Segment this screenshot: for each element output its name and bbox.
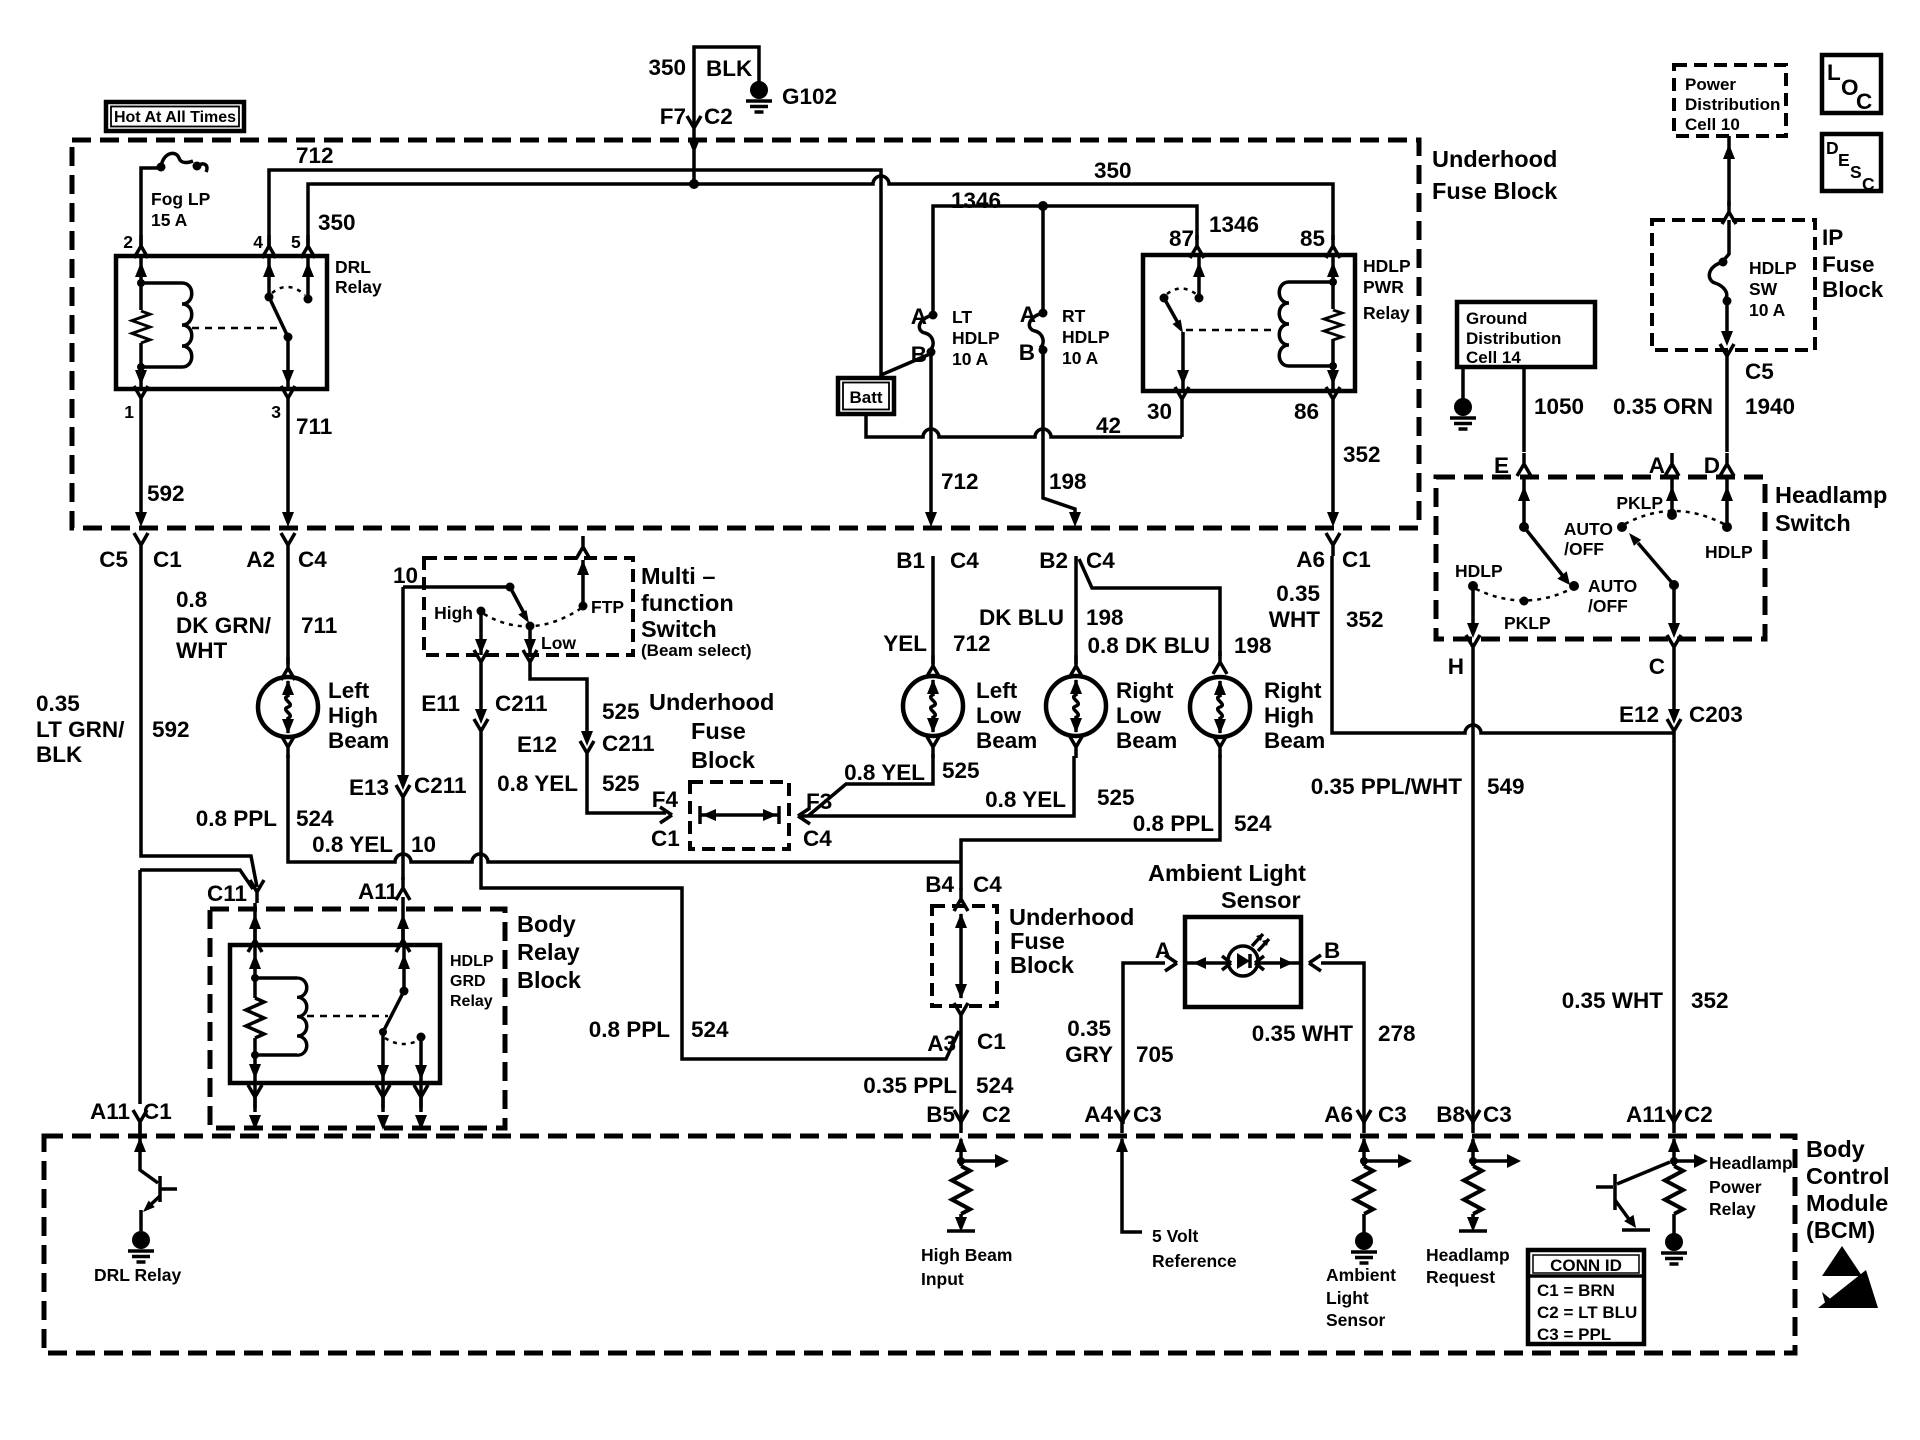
svg-text:Left: Left — [976, 678, 1018, 703]
svg-text:Fuse: Fuse — [691, 718, 746, 744]
svg-text:10: 10 — [411, 832, 436, 857]
svg-text:C1: C1 — [977, 1029, 1006, 1054]
svg-text:Cell 14: Cell 14 — [1466, 348, 1521, 367]
svg-text:D: D — [1826, 138, 1839, 158]
svg-text:HDLP: HDLP — [1062, 327, 1110, 347]
svg-text:Control: Control — [1806, 1163, 1890, 1189]
svg-text:E13: E13 — [349, 775, 389, 800]
svg-text:E11: E11 — [421, 691, 460, 716]
svg-text:Right: Right — [1116, 678, 1174, 703]
svg-text:Block: Block — [517, 967, 582, 993]
svg-text:C3: C3 — [1378, 1102, 1407, 1127]
svg-text:0.35 WHT: 0.35 WHT — [1252, 1021, 1354, 1046]
svg-text:A11: A11 — [358, 879, 398, 904]
svg-text:0.35: 0.35 — [36, 691, 80, 716]
svg-text:Power: Power — [1685, 75, 1736, 94]
svg-text:B1: B1 — [896, 548, 925, 573]
svg-text:WHT: WHT — [1269, 607, 1320, 632]
svg-text:30: 30 — [1147, 399, 1172, 424]
svg-text:Reference: Reference — [1152, 1251, 1237, 1271]
svg-text:DK BLU: DK BLU — [979, 605, 1064, 630]
svg-text:592: 592 — [147, 481, 185, 506]
svg-text:BLK: BLK — [706, 56, 753, 81]
svg-text:C5: C5 — [99, 547, 128, 572]
svg-text:Ground: Ground — [1466, 309, 1527, 328]
svg-text:350: 350 — [648, 55, 686, 80]
svg-text:Headlamp: Headlamp — [1426, 1245, 1510, 1265]
svg-text:Ambient Light: Ambient Light — [1148, 860, 1306, 886]
svg-text:705: 705 — [1136, 1042, 1174, 1067]
svg-text:Relay: Relay — [335, 277, 382, 297]
svg-text:C211: C211 — [495, 691, 548, 716]
svg-text:Headlamp: Headlamp — [1775, 482, 1887, 508]
svg-text:Switch: Switch — [1775, 510, 1851, 536]
svg-text:F4: F4 — [652, 787, 679, 812]
svg-text:C4: C4 — [1086, 548, 1115, 573]
svg-text:D: D — [1704, 453, 1720, 478]
svg-text:C3: C3 — [1133, 1102, 1162, 1127]
svg-text:Sensor: Sensor — [1326, 1310, 1386, 1330]
svg-text:352: 352 — [1343, 442, 1381, 467]
svg-text:HDLP: HDLP — [1749, 258, 1797, 278]
svg-text:0.35 WHT: 0.35 WHT — [1562, 988, 1664, 1013]
svg-text:0.8 PPL: 0.8 PPL — [589, 1017, 671, 1042]
svg-text:C2: C2 — [704, 104, 733, 129]
svg-text:B4: B4 — [925, 872, 954, 897]
svg-text:1: 1 — [124, 402, 134, 422]
svg-text:15 A: 15 A — [151, 210, 188, 230]
svg-text:Underhood: Underhood — [1009, 904, 1134, 930]
svg-text:A6: A6 — [1296, 547, 1325, 572]
svg-text:PWR: PWR — [1363, 277, 1404, 297]
svg-text:Relay: Relay — [1709, 1199, 1756, 1219]
svg-text:352: 352 — [1691, 988, 1729, 1013]
svg-text:C1: C1 — [153, 547, 182, 572]
svg-text:HDLP: HDLP — [1363, 256, 1411, 276]
svg-text:Body: Body — [1806, 1136, 1865, 1162]
svg-text:High: High — [328, 703, 378, 728]
svg-text:A11: A11 — [90, 1099, 130, 1124]
svg-text:0.35 ORN: 0.35 ORN — [1613, 394, 1713, 419]
svg-text:3: 3 — [271, 402, 281, 422]
svg-text:0.35 PPL: 0.35 PPL — [863, 1073, 957, 1098]
svg-text:Relay: Relay — [450, 993, 493, 1010]
svg-text:198: 198 — [1234, 633, 1272, 658]
svg-text:524: 524 — [691, 1017, 729, 1042]
svg-text:Sensor: Sensor — [1221, 887, 1301, 913]
svg-text:Fog LP: Fog LP — [151, 189, 211, 209]
svg-text:A: A — [1649, 453, 1665, 478]
svg-text:712: 712 — [941, 469, 979, 494]
svg-text:0.35 PPL/WHT: 0.35 PPL/WHT — [1311, 774, 1463, 799]
svg-text:Ambient: Ambient — [1326, 1265, 1396, 1285]
svg-text:525: 525 — [602, 699, 640, 724]
svg-text:10 A: 10 A — [1062, 348, 1099, 368]
svg-text:A: A — [911, 304, 927, 329]
svg-text:524: 524 — [1234, 811, 1272, 836]
svg-text:Left: Left — [328, 678, 370, 703]
svg-text:HDLP: HDLP — [450, 953, 494, 970]
svg-text:High: High — [1264, 703, 1314, 728]
svg-text:C2 = LT BLU: C2 = LT BLU — [1537, 1303, 1637, 1322]
svg-text:YEL: YEL — [883, 631, 927, 656]
svg-text:C4: C4 — [950, 548, 979, 573]
svg-text:C1 = BRN: C1 = BRN — [1537, 1281, 1615, 1300]
svg-text:CONN ID: CONN ID — [1550, 1256, 1622, 1275]
svg-text:Low: Low — [1116, 703, 1161, 728]
svg-text:350: 350 — [1094, 158, 1132, 183]
svg-text:C1: C1 — [1342, 547, 1371, 572]
svg-text:711: 711 — [296, 414, 332, 439]
svg-text:Body: Body — [517, 911, 576, 937]
svg-text:525: 525 — [602, 771, 640, 796]
svg-text:5 Volt: 5 Volt — [1152, 1226, 1199, 1246]
svg-text:278: 278 — [1378, 1021, 1416, 1046]
svg-text:198: 198 — [1086, 605, 1124, 630]
svg-text:0.8 PPL: 0.8 PPL — [1133, 811, 1215, 836]
svg-text:C203: C203 — [1689, 702, 1743, 727]
svg-text:C211: C211 — [602, 731, 655, 756]
svg-text:High Beam: High Beam — [921, 1245, 1012, 1265]
svg-text:(Beam select): (Beam select) — [641, 641, 752, 660]
svg-text:Relay: Relay — [1363, 303, 1410, 323]
svg-text:711: 711 — [301, 613, 337, 638]
svg-text:B5: B5 — [926, 1102, 955, 1127]
svg-text:1346: 1346 — [951, 188, 1001, 213]
svg-text:712: 712 — [296, 143, 334, 168]
svg-text:Multi –: Multi – — [641, 563, 715, 589]
svg-text:0.8 YEL: 0.8 YEL — [312, 832, 393, 857]
svg-text:L: L — [1827, 60, 1841, 85]
svg-text:524: 524 — [976, 1073, 1014, 1098]
svg-text:Block: Block — [1822, 277, 1884, 302]
svg-text:HDLP: HDLP — [1705, 542, 1753, 562]
svg-text:Beam: Beam — [1264, 728, 1325, 753]
svg-text:AUTO: AUTO — [1564, 519, 1613, 539]
svg-text:DRL: DRL — [335, 257, 371, 277]
svg-text:B: B — [1324, 938, 1340, 963]
svg-text:712: 712 — [953, 631, 991, 656]
svg-text:Beam: Beam — [976, 728, 1037, 753]
svg-text:350: 350 — [318, 210, 356, 235]
svg-text:A3: A3 — [927, 1031, 956, 1056]
svg-text:0.8 DK BLU: 0.8 DK BLU — [1087, 633, 1210, 658]
svg-text:0.8: 0.8 — [176, 587, 207, 612]
svg-text:1346: 1346 — [1209, 212, 1259, 237]
svg-text:WHT: WHT — [176, 638, 227, 663]
svg-text:Distribution: Distribution — [1466, 329, 1561, 348]
svg-text:0.35: 0.35 — [1067, 1016, 1111, 1041]
svg-text:HDLP: HDLP — [1455, 561, 1503, 581]
svg-text:C5: C5 — [1745, 359, 1774, 384]
svg-text:Fuse: Fuse — [1822, 252, 1875, 277]
svg-text:RT: RT — [1062, 306, 1086, 326]
svg-text:0.35: 0.35 — [1276, 581, 1320, 606]
svg-text:525: 525 — [1097, 785, 1135, 810]
svg-text:A4: A4 — [1084, 1102, 1113, 1127]
svg-text:Block: Block — [1010, 952, 1075, 978]
svg-text:C: C — [1862, 174, 1875, 194]
svg-text:10 A: 10 A — [1749, 300, 1786, 320]
svg-text:Fuse: Fuse — [1010, 928, 1065, 954]
svg-text:352: 352 — [1346, 607, 1384, 632]
svg-text:A2: A2 — [246, 547, 275, 572]
svg-text:A11: A11 — [1626, 1102, 1666, 1127]
svg-text:C: C — [1856, 89, 1872, 114]
svg-text:Switch: Switch — [641, 616, 717, 642]
svg-text:E: E — [1838, 150, 1850, 170]
svg-text:/OFF: /OFF — [1564, 539, 1604, 559]
svg-text:Batt: Batt — [849, 388, 882, 407]
svg-text:DRL Relay: DRL Relay — [94, 1265, 181, 1285]
svg-text:Light: Light — [1326, 1288, 1369, 1308]
svg-text:/OFF: /OFF — [1588, 596, 1628, 616]
svg-text:5: 5 — [291, 232, 301, 252]
svg-text:C2: C2 — [982, 1102, 1011, 1127]
svg-text:592: 592 — [152, 717, 190, 742]
svg-text:HDLP: HDLP — [952, 328, 1000, 348]
svg-text:C11: C11 — [207, 881, 247, 906]
svg-text:525: 525 — [942, 758, 980, 783]
svg-text:C4: C4 — [298, 547, 327, 572]
svg-text:A: A — [1020, 302, 1036, 327]
svg-text:B: B — [1019, 340, 1035, 365]
svg-text:F3: F3 — [806, 789, 832, 814]
svg-text:4: 4 — [253, 232, 263, 252]
svg-text:Underhood: Underhood — [1432, 146, 1557, 172]
svg-text:LT: LT — [952, 307, 972, 327]
svg-text:BLK: BLK — [36, 742, 83, 767]
svg-text:1050: 1050 — [1534, 394, 1584, 419]
svg-text:Block: Block — [691, 747, 756, 773]
svg-text:Low: Low — [976, 703, 1021, 728]
svg-text:B2: B2 — [1039, 548, 1068, 573]
svg-text:IP: IP — [1822, 225, 1843, 250]
svg-text:C1: C1 — [651, 826, 680, 851]
svg-text:Relay: Relay — [517, 939, 580, 965]
svg-text:E: E — [1494, 453, 1509, 478]
svg-text:B8: B8 — [1436, 1102, 1465, 1127]
svg-text:High: High — [434, 603, 473, 623]
svg-text:0.8 YEL: 0.8 YEL — [844, 760, 925, 785]
svg-text:10: 10 — [393, 563, 418, 588]
svg-text:Underhood: Underhood — [649, 689, 774, 715]
svg-text:Input: Input — [921, 1269, 964, 1289]
svg-text:549: 549 — [1487, 774, 1525, 799]
svg-text:Beam: Beam — [1116, 728, 1177, 753]
svg-text:C4: C4 — [973, 872, 1002, 897]
svg-text:198: 198 — [1049, 469, 1087, 494]
svg-text:Hot At All Times: Hot At All Times — [114, 109, 236, 126]
svg-text:S: S — [1850, 162, 1862, 182]
svg-text:86: 86 — [1294, 399, 1319, 424]
svg-text:AUTO: AUTO — [1588, 576, 1637, 596]
svg-text:42: 42 — [1096, 413, 1121, 438]
svg-text:E12: E12 — [1619, 702, 1659, 727]
svg-text:C1: C1 — [143, 1099, 172, 1124]
svg-text:C2: C2 — [1684, 1102, 1713, 1127]
svg-text:GRY: GRY — [1065, 1042, 1113, 1067]
svg-text:Distribution: Distribution — [1685, 95, 1780, 114]
svg-text:10 A: 10 A — [952, 349, 989, 369]
svg-text:(BCM): (BCM) — [1806, 1217, 1875, 1243]
svg-text:C3 = PPL: C3 = PPL — [1537, 1325, 1611, 1344]
svg-text:Module: Module — [1806, 1190, 1888, 1216]
svg-text:Cell 10: Cell 10 — [1685, 115, 1740, 134]
svg-text:Headlamp: Headlamp — [1709, 1153, 1793, 1173]
svg-text:function: function — [641, 590, 734, 616]
svg-text:0.8 YEL: 0.8 YEL — [985, 787, 1066, 812]
svg-text:FTP: FTP — [591, 597, 624, 617]
svg-text:85: 85 — [1300, 226, 1325, 251]
svg-text:PKLP: PKLP — [1504, 613, 1551, 633]
svg-text:Power: Power — [1709, 1177, 1762, 1197]
svg-text:F7: F7 — [660, 104, 686, 129]
svg-text:C3: C3 — [1483, 1102, 1512, 1127]
svg-text:87: 87 — [1169, 226, 1194, 251]
svg-text:C4: C4 — [803, 826, 832, 851]
svg-text:G102: G102 — [782, 84, 837, 109]
svg-text:PKLP: PKLP — [1616, 493, 1663, 513]
svg-text:SW: SW — [1749, 279, 1778, 299]
svg-text:GRD: GRD — [450, 973, 486, 990]
svg-text:2: 2 — [123, 232, 133, 252]
svg-text:Beam: Beam — [328, 728, 389, 753]
svg-text:A6: A6 — [1324, 1102, 1353, 1127]
svg-text:E12: E12 — [517, 732, 557, 757]
svg-text:B: B — [911, 342, 927, 367]
svg-text:524: 524 — [296, 806, 334, 831]
svg-text:LT GRN/: LT GRN/ — [36, 717, 125, 742]
svg-text:Fuse Block: Fuse Block — [1432, 178, 1558, 204]
svg-text:Right: Right — [1264, 678, 1322, 703]
svg-text:0.8 YEL: 0.8 YEL — [497, 771, 578, 796]
svg-text:C211: C211 — [414, 773, 467, 798]
svg-text:DK GRN/: DK GRN/ — [176, 613, 272, 638]
svg-text:C: C — [1649, 654, 1665, 679]
svg-text:H: H — [1448, 654, 1464, 679]
svg-text:Request: Request — [1426, 1267, 1495, 1287]
svg-text:1940: 1940 — [1745, 394, 1795, 419]
svg-text:Low: Low — [541, 633, 576, 653]
svg-text:0.8 PPL: 0.8 PPL — [196, 806, 278, 831]
